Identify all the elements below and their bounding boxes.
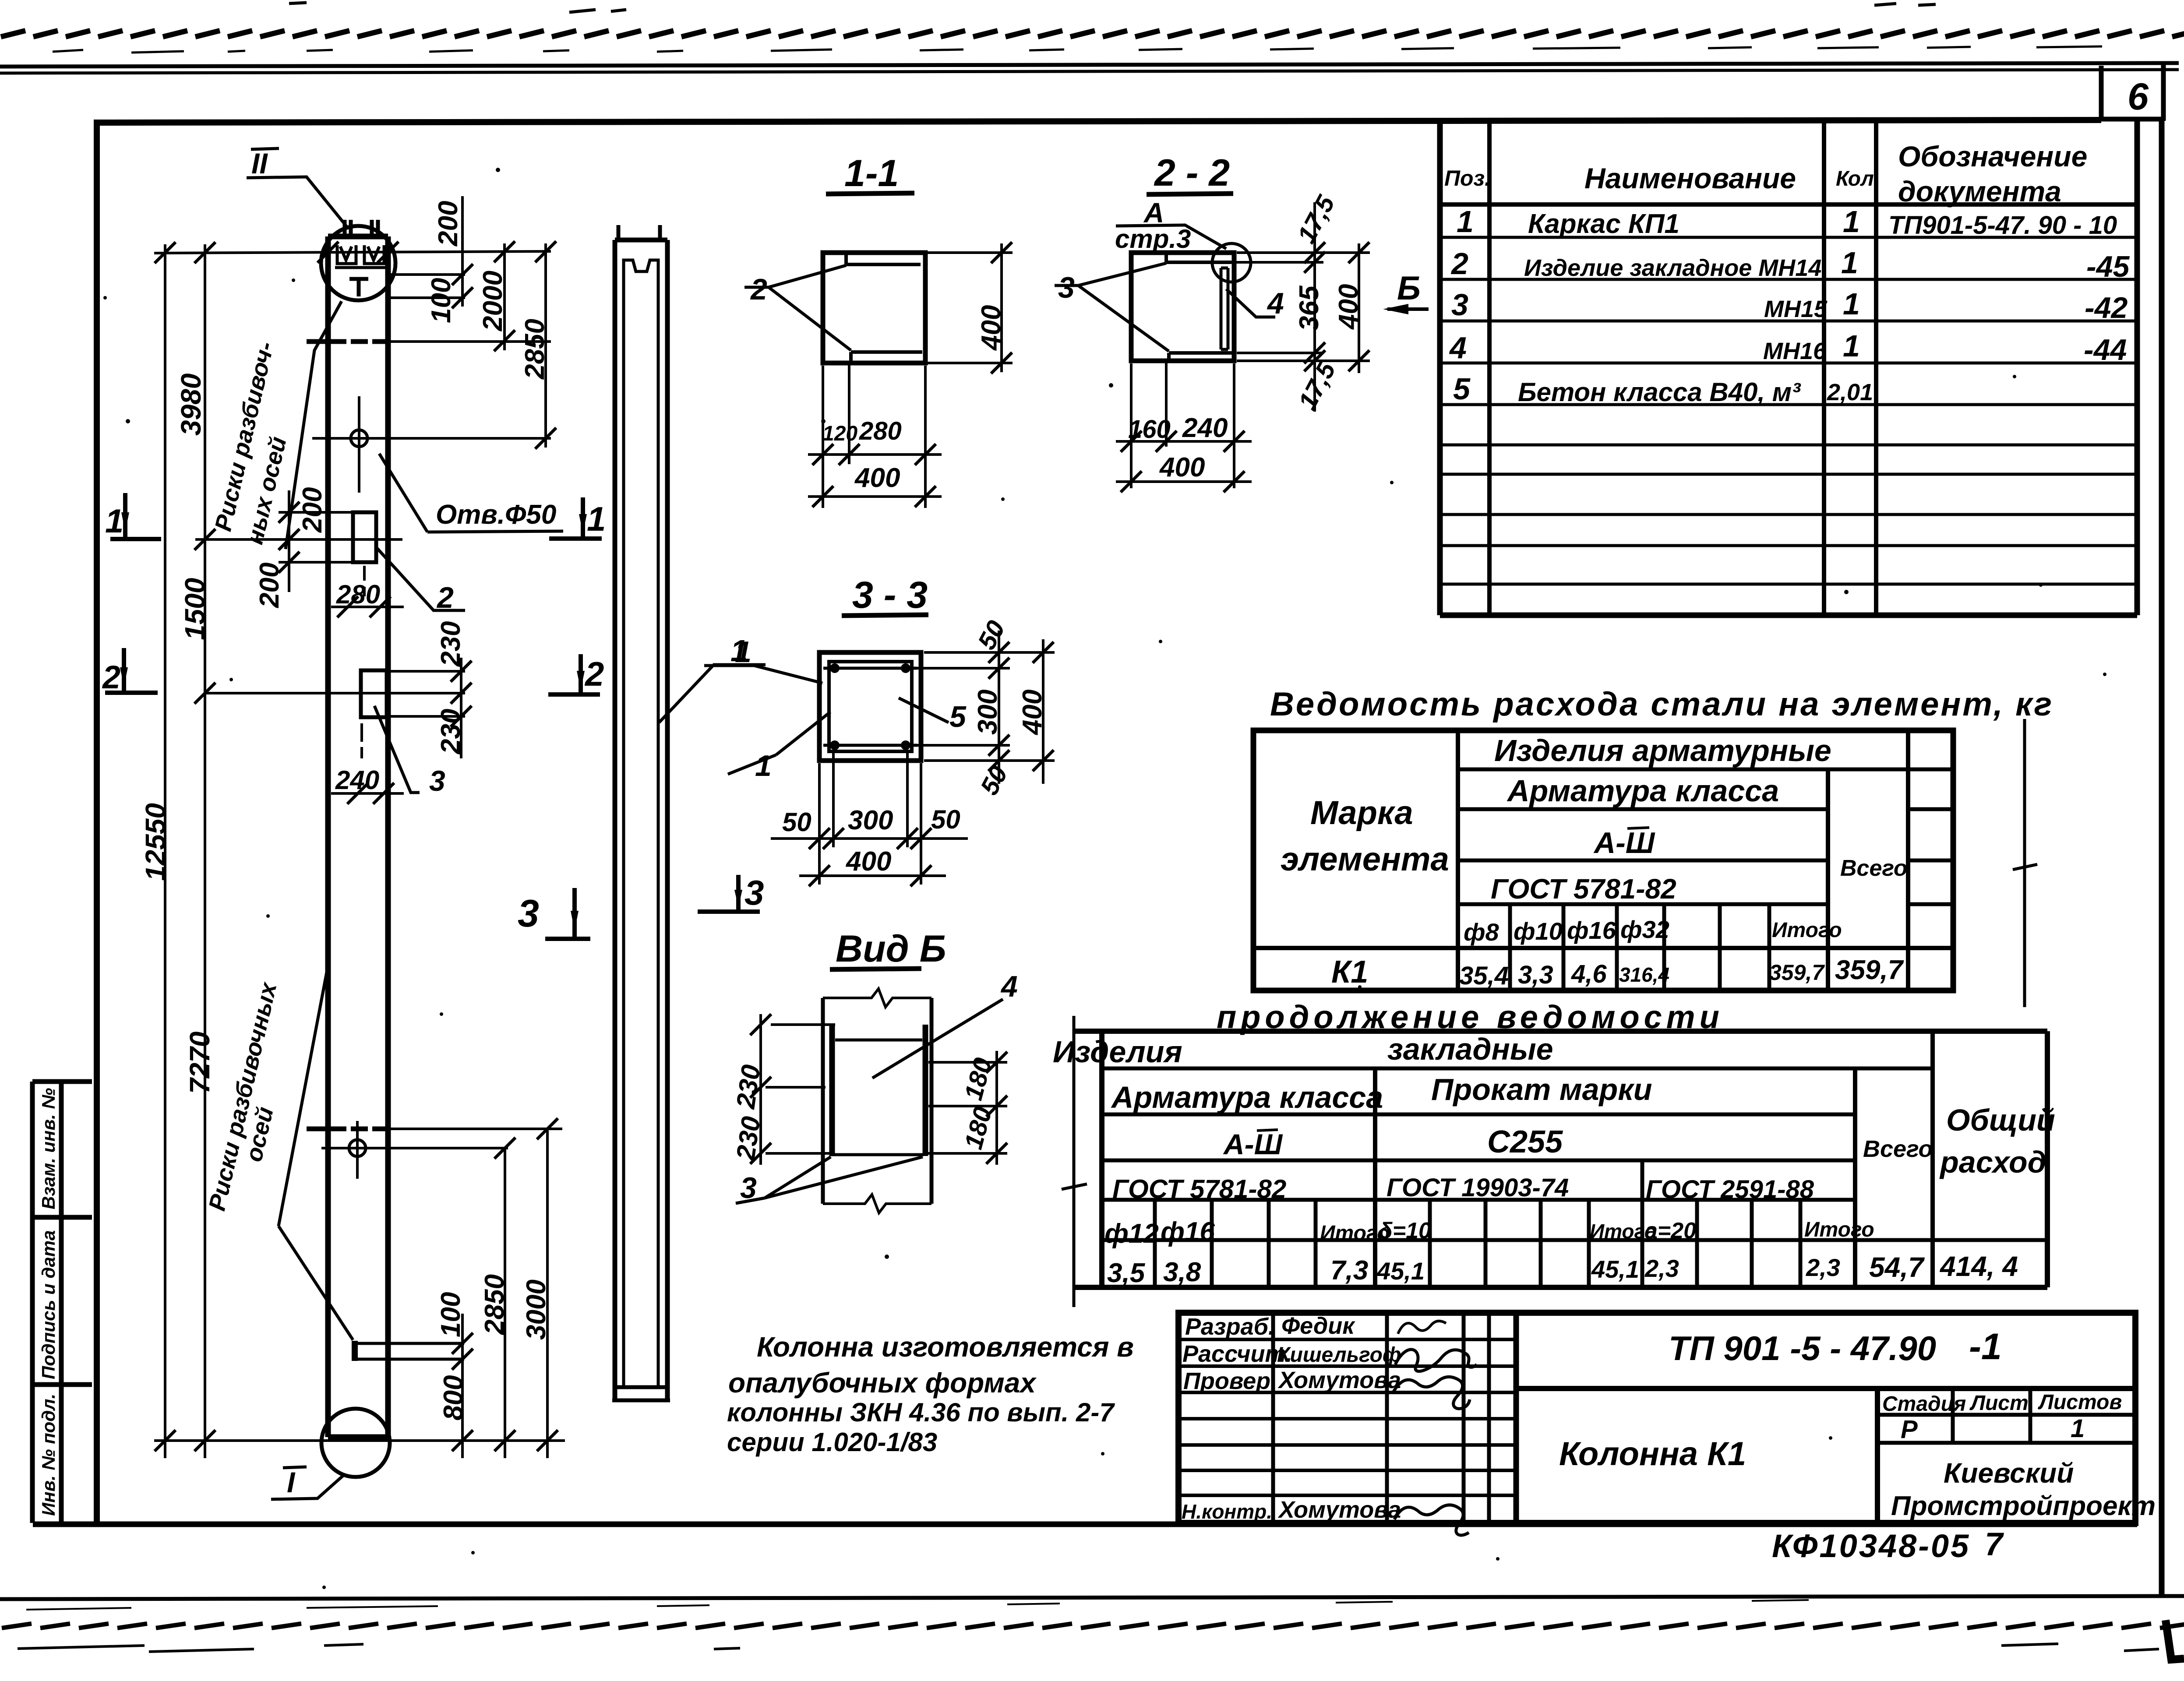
svg-text:12550: 12550 bbox=[140, 803, 171, 881]
svg-text:1: 1 bbox=[735, 635, 752, 669]
view B top break line bbox=[823, 989, 931, 1007]
svg-text:1: 1 bbox=[1841, 246, 1858, 280]
svg-text:Отв.Ф50: Отв.Ф50 bbox=[436, 500, 556, 530]
svg-text:Лист: Лист bbox=[1969, 1392, 2029, 1415]
section 2-2 bottom plate bbox=[1169, 353, 1234, 361]
embedded item 3 notch bbox=[361, 670, 387, 717]
continuation table break line left bbox=[1073, 1016, 1076, 1307]
signature 2 bbox=[1395, 1350, 1477, 1371]
svg-text:расход: расход bbox=[1939, 1145, 2046, 1179]
steel table verticals bbox=[1456, 730, 1460, 990]
svg-text:3 - 3: 3 - 3 bbox=[852, 574, 928, 616]
leader label 3 (view B) bbox=[736, 1157, 923, 1203]
svg-text:200: 200 bbox=[297, 487, 328, 533]
svg-text:Колонна изготовляется в: Колонна изготовляется в bbox=[757, 1331, 1134, 1363]
view B column edges bbox=[823, 998, 931, 1204]
sheet bottom border line bbox=[0, 1596, 2184, 1599]
svg-text:1500: 1500 bbox=[179, 578, 211, 640]
svg-text:серии 1.020-1/83: серии 1.020-1/83 bbox=[727, 1427, 937, 1457]
svg-text:400: 400 bbox=[1159, 452, 1205, 483]
svg-text:Рассчит.: Рассчит. bbox=[1182, 1341, 1292, 1367]
svg-text:5: 5 bbox=[949, 700, 967, 733]
svg-text:А-Ш: А-Ш bbox=[1223, 1128, 1283, 1160]
title block left row lines bbox=[1178, 1339, 1516, 1495]
svg-text:КФ10348-05: КФ10348-05 bbox=[1772, 1528, 1970, 1564]
side view inner lines bbox=[624, 274, 658, 1387]
section 1-1 top plate bbox=[846, 255, 921, 264]
dims right of 3-3: 50/300/50 and 400 bbox=[915, 652, 1055, 761]
svg-text:400: 400 bbox=[1017, 690, 1048, 736]
svg-text:ТП 901 -5 - 47.90: ТП 901 -5 - 47.90 bbox=[1669, 1329, 1936, 1367]
svg-text:ф12: ф12 bbox=[1104, 1219, 1159, 1249]
svg-text:2: 2 bbox=[750, 273, 767, 306]
top dimension line bbox=[154, 251, 551, 253]
rebar dots bbox=[830, 663, 840, 673]
svg-text:ф10: ф10 bbox=[1514, 917, 1563, 945]
plate line under channels bbox=[335, 266, 389, 269]
svg-text:Хомутова: Хомутова bbox=[1277, 1367, 1401, 1393]
continuation table verticals bbox=[1375, 1031, 1933, 1287]
axis mark dashes lower bbox=[307, 1127, 387, 1131]
frame bottom edge bbox=[33, 1522, 2137, 1527]
svg-text:200: 200 bbox=[433, 201, 463, 247]
svg-text:3,8: 3,8 bbox=[1163, 1257, 1201, 1287]
hole lower bbox=[349, 1140, 366, 1156]
svg-text:800: 800 bbox=[438, 1375, 469, 1420]
svg-text:1: 1 bbox=[2071, 1414, 2085, 1443]
dims below 2-2 bbox=[1131, 361, 1234, 488]
svg-text:Марка: Марка bbox=[1310, 794, 1413, 832]
svg-text:280: 280 bbox=[859, 417, 902, 445]
anchor channels inside circle bbox=[337, 245, 356, 264]
section mark 2 right bbox=[548, 654, 600, 694]
svg-text:54,7: 54,7 bbox=[1869, 1251, 1925, 1283]
svg-text:II: II bbox=[251, 147, 268, 180]
svg-text:2: 2 bbox=[1450, 247, 1468, 281]
dim 280 bbox=[331, 606, 404, 608]
axis mark dashes top bbox=[307, 339, 387, 344]
svg-text:50: 50 bbox=[931, 805, 960, 834]
svg-text:280: 280 bbox=[336, 580, 380, 609]
svg-text:Ведомость расхода стали: Ведомость расхода стали на элемент, кг bbox=[1270, 686, 2053, 723]
side view column body bbox=[615, 240, 667, 1400]
svg-text:Разраб.: Разраб. bbox=[1185, 1314, 1275, 1340]
dim verticals bottom bbox=[462, 1129, 547, 1458]
svg-text:2000: 2000 bbox=[478, 271, 508, 331]
svg-text:I: I bbox=[287, 1466, 296, 1498]
hole Otv.50 bbox=[351, 430, 367, 447]
dims below 1-1 bbox=[823, 363, 925, 508]
svg-text:45,1: 45,1 bbox=[1376, 1257, 1425, 1285]
continuation table outer frame bbox=[1074, 1031, 2047, 1287]
frame right edge bbox=[2159, 121, 2165, 1595]
torn paper edge bottom bbox=[0, 1618, 2184, 1632]
item3 level lines bbox=[387, 671, 465, 716]
leader label 3 (section 2-2) bbox=[1055, 263, 1169, 351]
leader label 1 upper (3-3) bbox=[704, 666, 822, 683]
svg-text:1: 1 bbox=[755, 749, 772, 782]
svg-text:Прокат марки: Прокат марки bbox=[1431, 1072, 1652, 1107]
stirrup bar lines bbox=[823, 668, 917, 745]
svg-text:365: 365 bbox=[1294, 285, 1324, 331]
svg-text:Бетон класса В40, м³: Бетон класса В40, м³ bbox=[1518, 377, 1801, 407]
title block outer frame bbox=[1178, 1313, 2135, 1523]
svg-text:1: 1 bbox=[1843, 329, 1860, 363]
view B bottom break line bbox=[823, 1195, 931, 1213]
svg-text:4: 4 bbox=[1449, 331, 1467, 365]
svg-text:Наименование: Наименование bbox=[1584, 162, 1796, 194]
svg-text:160: 160 bbox=[1128, 415, 1171, 444]
svg-text:359,7: 359,7 bbox=[1769, 960, 1825, 985]
side view top bolts bbox=[618, 225, 660, 242]
embedded item 2 notch bbox=[353, 512, 376, 562]
svg-text:Б: Б bbox=[1397, 270, 1421, 307]
svg-text:100: 100 bbox=[426, 278, 456, 323]
svg-text:Каркас КП1: Каркас КП1 bbox=[1528, 209, 1679, 239]
svg-text:1: 1 bbox=[105, 503, 123, 540]
svg-text:Всего: Всего bbox=[1863, 1136, 1933, 1162]
svg-text:Изделие закладное МН14: Изделие закладное МН14 bbox=[1524, 255, 1821, 281]
svg-text:240: 240 bbox=[335, 765, 379, 795]
svg-text:300: 300 bbox=[848, 805, 893, 835]
anchor bolts at column top bbox=[345, 220, 378, 239]
svg-text:опалубочных формах: опалубочных формах bbox=[728, 1367, 1037, 1399]
svg-text:2: 2 bbox=[102, 659, 120, 695]
svg-text:414, 4: 414, 4 bbox=[1939, 1251, 2018, 1282]
scattered specks above top edge bbox=[289, 3, 1936, 12]
svg-text:Общий: Общий bbox=[1946, 1103, 2055, 1137]
svg-text:50: 50 bbox=[782, 807, 812, 837]
title block left verticals bbox=[1273, 1313, 1489, 1523]
svg-text:400: 400 bbox=[1334, 284, 1364, 330]
svg-text:3,5: 3,5 bbox=[1107, 1258, 1146, 1288]
svg-text:3: 3 bbox=[740, 1171, 757, 1205]
specification table verticals bbox=[1489, 120, 1876, 615]
svg-text:300: 300 bbox=[973, 690, 1003, 735]
svg-text:400: 400 bbox=[845, 846, 891, 877]
svg-text:316,4: 316,4 bbox=[1619, 963, 1669, 986]
svg-text:Киевский: Киевский bbox=[1944, 1457, 2074, 1489]
svg-text:1-1: 1-1 bbox=[844, 152, 899, 194]
signature 4 bbox=[1394, 1505, 1469, 1535]
svg-text:7: 7 bbox=[1985, 1526, 2004, 1562]
svg-text:стр.3: стр.3 bbox=[1115, 224, 1191, 254]
svg-text:ф16: ф16 bbox=[1161, 1217, 1215, 1247]
svg-text:ф32: ф32 bbox=[1620, 916, 1669, 943]
dim 400 right of 1-1 bbox=[928, 253, 1013, 363]
svg-text:МН16: МН16 bbox=[1763, 338, 1827, 364]
svg-text:7270: 7270 bbox=[184, 1032, 215, 1094]
svg-text:3: 3 bbox=[744, 873, 764, 912]
T mark in circle bbox=[349, 279, 368, 296]
svg-text:Изделия: Изделия bbox=[1053, 1035, 1182, 1069]
svg-text:Арматура класса: Арматура класса bbox=[1507, 774, 1779, 808]
svg-text:Итого: Итого bbox=[1772, 919, 1842, 942]
svg-text:5: 5 bbox=[1453, 372, 1471, 406]
svg-text:С255: С255 bbox=[1487, 1124, 1563, 1159]
section level 1-1 line bbox=[195, 538, 402, 541]
svg-text:2 - 2: 2 - 2 bbox=[1154, 152, 1230, 194]
svg-text:ф8: ф8 bbox=[1464, 918, 1500, 946]
svg-text:Хомутова: Хомутова bbox=[1277, 1497, 1401, 1523]
svg-text:Федик: Федик bbox=[1281, 1313, 1355, 1339]
left dimension line 12550 bbox=[164, 244, 166, 1458]
svg-text:Н.контр.: Н.контр. bbox=[1182, 1500, 1272, 1523]
dim 400 right of 2-2 bbox=[1358, 243, 1360, 373]
leader label 2 bbox=[377, 548, 465, 610]
svg-text:3000: 3000 bbox=[521, 1279, 551, 1340]
dims below 3-3 bbox=[819, 751, 921, 885]
svg-text:230: 230 bbox=[436, 621, 466, 667]
svg-text:2,3: 2,3 bbox=[1644, 1255, 1679, 1282]
svg-text:ГОСТ 5781-82: ГОСТ 5781-82 bbox=[1491, 873, 1676, 905]
svg-text:35,4: 35,4 bbox=[1459, 962, 1509, 990]
top border double line bbox=[0, 63, 2179, 67]
scan noise specks bbox=[103, 168, 2106, 1589]
section 1-1 bottom plate bbox=[851, 352, 922, 361]
svg-text:Кол.: Кол. bbox=[1836, 167, 1880, 190]
svg-text:100: 100 bbox=[436, 1292, 466, 1337]
dim vertical 2850 top bbox=[544, 243, 547, 448]
svg-text:230: 230 bbox=[730, 1114, 766, 1162]
svg-text:ГОСТ 19903-74: ГОСТ 19903-74 bbox=[1387, 1174, 1569, 1202]
svg-text:3980: 3980 bbox=[175, 374, 207, 436]
section mark 1 left bbox=[110, 493, 161, 539]
svg-text:3: 3 bbox=[1058, 271, 1075, 304]
svg-text:7,3: 7,3 bbox=[1330, 1255, 1368, 1286]
svg-text:2,01: 2,01 bbox=[1827, 379, 1873, 405]
specks below bottom edge bbox=[18, 1644, 2159, 1652]
leader label 1 (karkas) bbox=[659, 665, 766, 722]
svg-text:400: 400 bbox=[976, 305, 1006, 351]
left dimension line chain 3980/1500/7270 bbox=[204, 244, 206, 1458]
svg-text:2850: 2850 bbox=[520, 319, 550, 380]
svg-text:δ=10: δ=10 bbox=[1379, 1218, 1431, 1244]
side view top recess bbox=[624, 260, 658, 274]
svg-text:ГОСТ 5781-82: ГОСТ 5781-82 bbox=[1112, 1174, 1286, 1204]
left stamp strip frame bbox=[32, 1082, 92, 1523]
svg-text:Взам. инв. №: Взам. инв. № bbox=[38, 1088, 59, 1209]
section mark 1 right bbox=[549, 497, 602, 539]
leader label 2 (section 1-1) bbox=[744, 265, 851, 350]
svg-text:МН15: МН15 bbox=[1764, 296, 1828, 322]
section 3-3 square bbox=[819, 652, 921, 761]
svg-text:Промстройпроект: Промстройпроект bbox=[1891, 1491, 2156, 1521]
view B plate side bars bbox=[832, 1025, 925, 1156]
svg-text:Р: Р bbox=[1901, 1415, 1918, 1444]
dim vertical 2000 bbox=[503, 243, 506, 350]
svg-text:Итого: Итого bbox=[1804, 1218, 1874, 1241]
svg-text:6: 6 bbox=[2128, 76, 2149, 118]
svg-text:К1: К1 bbox=[1331, 955, 1368, 990]
specification table frame bbox=[1440, 119, 2137, 615]
section 1-1 square bbox=[823, 253, 925, 363]
leader label 4 (section 2-2) bbox=[1226, 289, 1275, 317]
drawing frame bbox=[97, 120, 2101, 1523]
svg-text:Стадия: Стадия bbox=[1882, 1392, 1966, 1416]
svg-text:Кишельгоф: Кишельгоф bbox=[1277, 1343, 1401, 1367]
detail circle on 2-2 bbox=[1212, 243, 1251, 282]
dim vertical 200/100 top bbox=[461, 196, 464, 307]
signature 1 bbox=[1398, 1321, 1446, 1334]
svg-text:Листов: Листов bbox=[2038, 1391, 2122, 1414]
signature 3 bbox=[1394, 1377, 1470, 1409]
svg-text:2: 2 bbox=[584, 655, 604, 693]
svg-text:ТП901-5-47. 90 - 10: ТП901-5-47. 90 - 10 bbox=[1888, 211, 2117, 240]
leader label 4 (view B) bbox=[872, 999, 1003, 1078]
svg-text:2,3: 2,3 bbox=[1806, 1254, 1840, 1281]
specification header line bbox=[1440, 202, 2137, 207]
torn paper edge top bbox=[0, 25, 2184, 41]
specification row lines bbox=[1440, 237, 2137, 584]
svg-text:-44: -44 bbox=[2084, 333, 2127, 367]
svg-text:документа: документа bbox=[1898, 175, 2061, 208]
svg-text:1: 1 bbox=[587, 500, 606, 538]
svg-text:1: 1 bbox=[1457, 204, 1474, 239]
svg-text:колонны ЗКН 4.36 по вып. 2: колонны ЗКН 4.36 по вып. 2-7 bbox=[727, 1398, 1115, 1427]
detail circle II bbox=[321, 226, 395, 300]
section mark 3 left bbox=[545, 888, 590, 939]
section 2-2 top plate bbox=[1166, 255, 1231, 262]
stadia list listov sub-table bbox=[1875, 1388, 1880, 1523]
svg-text:230: 230 bbox=[436, 709, 466, 754]
svg-text:ф16: ф16 bbox=[1567, 916, 1616, 944]
dims left of view B: 230/230 bbox=[766, 1025, 835, 1153]
section mark 3 right bbox=[698, 875, 760, 912]
svg-text:Подпись и дата: Подпись и дата bbox=[38, 1230, 59, 1379]
svg-text:3: 3 bbox=[518, 892, 539, 935]
section 2-2 side plate MN16 bbox=[1221, 268, 1228, 349]
column K1 body bbox=[328, 236, 388, 1437]
svg-text:а=20: а=20 bbox=[1645, 1218, 1696, 1244]
dims right of view B: 180/180 bbox=[926, 1062, 1007, 1153]
side view bottom cap bbox=[612, 1387, 670, 1400]
svg-text:Вид Б: Вид Б bbox=[836, 928, 946, 970]
svg-text:Провер.: Провер. bbox=[1183, 1368, 1277, 1394]
continuation table horizontals bbox=[1102, 1067, 1933, 1071]
steel table horizontals bbox=[1458, 768, 1953, 772]
svg-text:4: 4 bbox=[1267, 287, 1284, 320]
svg-text:1: 1 bbox=[1843, 287, 1860, 321]
bottom-right corner mark bbox=[2166, 1620, 2184, 1660]
svg-text:230: 230 bbox=[730, 1063, 766, 1110]
sheet number box top right bbox=[2101, 65, 2163, 121]
svg-text:45,1: 45,1 bbox=[1591, 1255, 1639, 1283]
view B plate top/bottom bbox=[831, 1040, 924, 1155]
svg-text:элемента: элемента bbox=[1281, 841, 1449, 878]
svg-text:Поз.: Поз. bbox=[1444, 166, 1491, 190]
bottom dimension line bbox=[154, 1439, 565, 1442]
svg-text:3: 3 bbox=[1451, 288, 1468, 322]
title block doc row line bbox=[1516, 1386, 2135, 1391]
svg-text:400: 400 bbox=[854, 463, 900, 493]
steel table break line right bbox=[2023, 719, 2026, 1007]
section mark 2 left bbox=[105, 648, 158, 693]
svg-text:3: 3 bbox=[429, 765, 445, 797]
svg-text:2850: 2850 bbox=[480, 1274, 510, 1335]
svg-text:120: 120 bbox=[822, 422, 857, 445]
steel table outer frame bbox=[1253, 730, 1953, 990]
svg-text:Инв. № подл.: Инв. № подл. bbox=[38, 1394, 59, 1516]
section 2-2 square bbox=[1131, 253, 1234, 361]
embedded plate item1 at bottom bbox=[352, 1341, 358, 1361]
svg-text:Обозначение: Обозначение bbox=[1898, 140, 2087, 173]
dims right of 2-2: 17,5 / 365 / 17,5 bbox=[1231, 253, 1370, 361]
svg-text:Изделия арматурные: Изделия арматурные bbox=[1494, 733, 1831, 768]
svg-text:-45: -45 bbox=[2086, 250, 2130, 283]
section level 2-2 line bbox=[205, 692, 465, 694]
svg-text:Арматура класса: Арматура класса bbox=[1111, 1080, 1383, 1114]
extension lines item2 bbox=[279, 512, 353, 562]
svg-text:4,6: 4,6 bbox=[1571, 960, 1607, 988]
section 3-3 stirrup bbox=[829, 662, 912, 751]
svg-text:ГОСТ 2591-88: ГОСТ 2591-88 bbox=[1646, 1175, 1814, 1204]
dim 240 bbox=[331, 792, 404, 795]
svg-text:1: 1 bbox=[1843, 204, 1860, 239]
svg-text:359,7: 359,7 bbox=[1835, 955, 1904, 985]
svg-text:Колонна К1: Колонна К1 bbox=[1559, 1435, 1746, 1473]
svg-text:А-Ш: А-Ш bbox=[1593, 826, 1655, 860]
svg-text:2: 2 bbox=[436, 581, 454, 614]
svg-text:-42: -42 bbox=[2085, 291, 2128, 324]
detail circle I bottom bbox=[321, 1409, 390, 1477]
svg-text:Всего: Всего bbox=[1840, 856, 1908, 881]
svg-text:закладные: закладные bbox=[1387, 1032, 1553, 1066]
svg-text:3,3: 3,3 bbox=[1518, 961, 1553, 989]
leader label 1 lower (3-3) bbox=[728, 712, 830, 774]
svg-text:240: 240 bbox=[1182, 413, 1228, 443]
svg-text:200: 200 bbox=[254, 563, 285, 608]
leader label 3 bbox=[374, 706, 420, 793]
svg-text:-1: -1 bbox=[1969, 1326, 2002, 1367]
svg-text:4: 4 bbox=[1000, 970, 1018, 1003]
leader label 5 bbox=[899, 698, 949, 722]
